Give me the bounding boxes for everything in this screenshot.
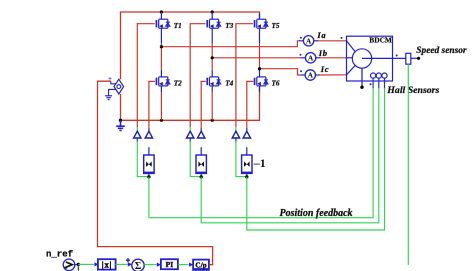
multiplier block M3 xyxy=(242,147,252,178)
wire Ib to BDCM xyxy=(320,57,346,59)
svg-text:T6: T6 xyxy=(272,80,280,88)
transistor T5 xyxy=(254,19,268,28)
wire hall to gate G1 (green L) xyxy=(137,141,147,176)
abs block |x| xyxy=(98,259,116,269)
svg-text:T2: T2 xyxy=(174,80,182,88)
wire leg A xyxy=(160,12,162,120)
svg-text:Ia: Ia xyxy=(316,30,326,40)
wire phase B xyxy=(212,57,300,59)
node T4 source junction xyxy=(211,119,214,122)
node phase A xyxy=(160,45,163,48)
svg-text:BDCM: BDCM xyxy=(369,36,392,45)
wire phase A xyxy=(161,41,298,47)
svg-text:Ib: Ib xyxy=(318,48,328,58)
svg-text:|x|: |x| xyxy=(102,259,112,269)
node n_ref junction xyxy=(77,263,80,266)
wire n_ref to abs xyxy=(78,263,94,265)
wire gate T4 xyxy=(201,81,206,127)
wire leg B xyxy=(211,12,213,120)
wire gate T1 xyxy=(137,24,155,127)
svg-text:T3: T3 xyxy=(225,22,233,30)
svg-text:–1: –1 xyxy=(253,156,266,170)
svg-text:Hall Sensors: Hall Sensors xyxy=(386,85,439,96)
node T1 drain junction xyxy=(160,10,163,13)
gate driver triangle G1 xyxy=(134,131,141,138)
step source n_ref xyxy=(63,259,78,271)
wire PI to limiter xyxy=(178,264,189,266)
speed sensor xyxy=(406,53,420,64)
wire hall B feedback xyxy=(201,88,379,223)
node DC negative junction xyxy=(119,119,122,122)
wire Ic to BDCM xyxy=(320,74,346,76)
wire hall to gate G3 (green L) xyxy=(190,141,199,176)
wire phase C xyxy=(260,69,301,75)
wire Ia to BDCM xyxy=(318,40,346,42)
wire hall to gate G5 (green L) xyxy=(236,141,246,176)
hall sensor b xyxy=(376,73,381,88)
controlled voltage source VDC xyxy=(108,75,124,96)
wire gate T3 xyxy=(190,24,205,127)
gate driver triangle G5 xyxy=(232,131,239,138)
wire speed feedback xyxy=(407,64,409,265)
svg-text:Speed sensor: Speed sensor xyxy=(416,46,467,56)
svg-text:T5: T5 xyxy=(272,22,280,30)
wire abs to sum xyxy=(116,263,128,265)
node T3 drain junction xyxy=(211,10,214,13)
svg-text:Ic: Ic xyxy=(320,64,329,74)
wire bottom DC bus xyxy=(121,87,260,120)
node T2 source junction xyxy=(160,119,163,122)
node phase C xyxy=(258,67,261,70)
limiter block C/p xyxy=(193,260,209,270)
wire gate T6 xyxy=(247,81,253,127)
ground (below DC bus) xyxy=(116,120,125,130)
hall sensor c xyxy=(382,73,387,88)
transistor T6 xyxy=(254,77,268,86)
wire top DC bus xyxy=(121,12,260,79)
wire control to source xyxy=(98,81,213,265)
svg-text:PI: PI xyxy=(166,260,174,269)
svg-text:n_ref: n_ref xyxy=(46,250,73,260)
wire gate T2 xyxy=(149,81,155,127)
ammeter Ia xyxy=(299,30,343,46)
transistor T3 xyxy=(206,19,220,28)
transistor T4 xyxy=(206,77,220,86)
transistor T1 xyxy=(156,19,170,28)
wire n_ref down stub xyxy=(77,264,79,271)
svg-text:T1: T1 xyxy=(174,22,182,30)
gate driver triangle G2 xyxy=(145,131,152,138)
PI controller block xyxy=(161,259,178,269)
wire sum to PI xyxy=(144,264,156,266)
ammeter Ic xyxy=(300,64,329,80)
transistor T2 xyxy=(156,77,170,86)
wire gate T5 xyxy=(236,24,253,127)
node phase B xyxy=(211,56,214,59)
svg-text:Position feedback: Position feedback xyxy=(280,208,353,219)
svg-text:T4: T4 xyxy=(225,80,233,88)
wire hall A feedback xyxy=(149,88,373,217)
hall sensor a xyxy=(371,73,376,88)
gate driver triangle G4 xyxy=(198,131,205,138)
wire gate driver stubs (blue) xyxy=(137,138,236,142)
ammeter Ib xyxy=(300,48,328,63)
multiplier block M1 xyxy=(144,147,154,178)
svg-text:C/p: C/p xyxy=(195,262,206,270)
gate driver triangle G3 xyxy=(187,131,194,138)
ground (source control input) xyxy=(105,96,112,100)
summation node xyxy=(126,258,144,271)
wire leg C xyxy=(259,14,261,93)
wire hall C feedback xyxy=(247,88,385,230)
svg-text:Σ: Σ xyxy=(135,261,142,271)
multiplier block M2 xyxy=(196,147,206,178)
gate driver triangle G6 xyxy=(243,131,250,138)
BDCM motor block U1 xyxy=(347,36,406,89)
